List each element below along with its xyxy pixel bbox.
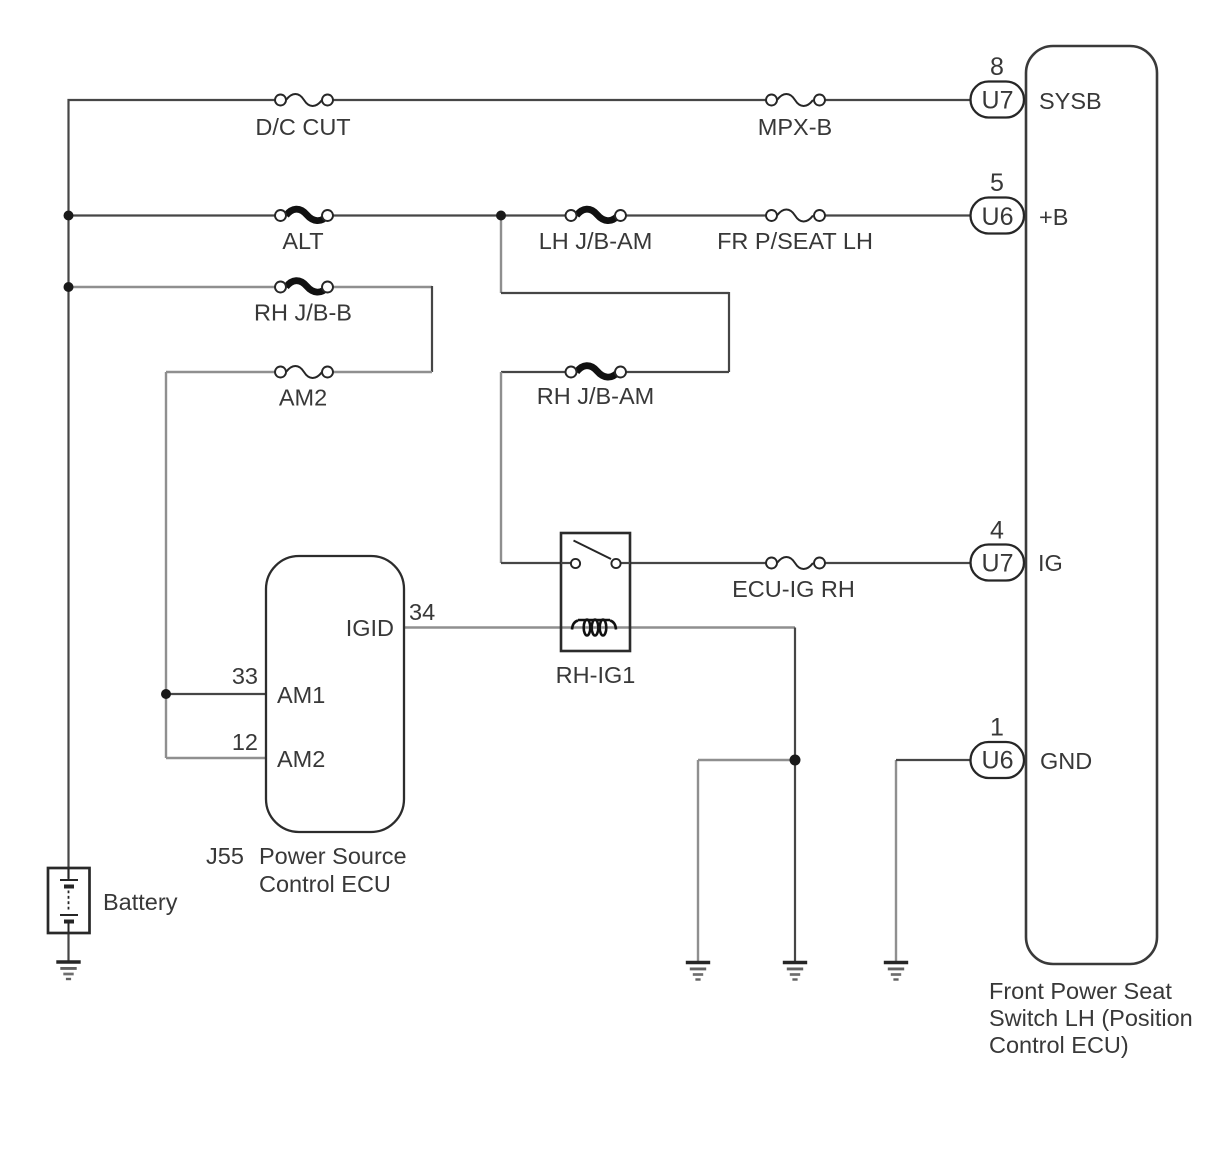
svg-text:D/C CUT: D/C CUT <box>255 114 350 140</box>
svg-text:Front Power Seat: Front Power Seat <box>989 978 1172 1004</box>
svg-text:SYSB: SYSB <box>1039 88 1102 114</box>
svg-text:Power Source: Power Source <box>259 843 407 869</box>
svg-text:Control ECU): Control ECU) <box>989 1032 1129 1058</box>
svg-text:U7: U7 <box>982 87 1014 115</box>
svg-text:8: 8 <box>990 53 1004 81</box>
svg-text:IG: IG <box>1038 550 1063 576</box>
svg-text:Control ECU: Control ECU <box>259 871 391 897</box>
svg-text:12: 12 <box>232 729 258 755</box>
svg-text:ECU-IG RH: ECU-IG RH <box>732 576 855 602</box>
svg-text:GND: GND <box>1040 748 1092 774</box>
svg-text:RH J/B-AM: RH J/B-AM <box>537 383 655 409</box>
svg-text:AM1: AM1 <box>277 682 325 708</box>
svg-text:AM2: AM2 <box>279 385 327 411</box>
svg-text:RH J/B-B: RH J/B-B <box>254 300 352 326</box>
svg-text:J55: J55 <box>206 843 244 869</box>
svg-text:U6: U6 <box>982 747 1014 775</box>
svg-text:5: 5 <box>990 169 1004 197</box>
svg-text:33: 33 <box>232 663 258 689</box>
svg-text:34: 34 <box>409 599 435 625</box>
svg-text:U7: U7 <box>982 550 1014 578</box>
svg-text:Switch LH (Position: Switch LH (Position <box>989 1005 1193 1031</box>
svg-text:ALT: ALT <box>282 228 323 254</box>
svg-text:MPX-B: MPX-B <box>758 114 832 140</box>
svg-text:RH-IG1: RH-IG1 <box>556 662 636 688</box>
svg-text:AM2: AM2 <box>277 746 325 772</box>
svg-text:LH J/B-AM: LH J/B-AM <box>539 228 653 254</box>
svg-text:4: 4 <box>990 517 1004 545</box>
svg-text:Battery: Battery <box>103 889 178 915</box>
svg-text:FR P/SEAT LH: FR P/SEAT LH <box>717 228 873 254</box>
svg-text:1: 1 <box>990 714 1004 742</box>
svg-text:U6: U6 <box>982 203 1014 231</box>
svg-text:IGID: IGID <box>346 615 394 641</box>
svg-text:+B: +B <box>1039 204 1068 230</box>
